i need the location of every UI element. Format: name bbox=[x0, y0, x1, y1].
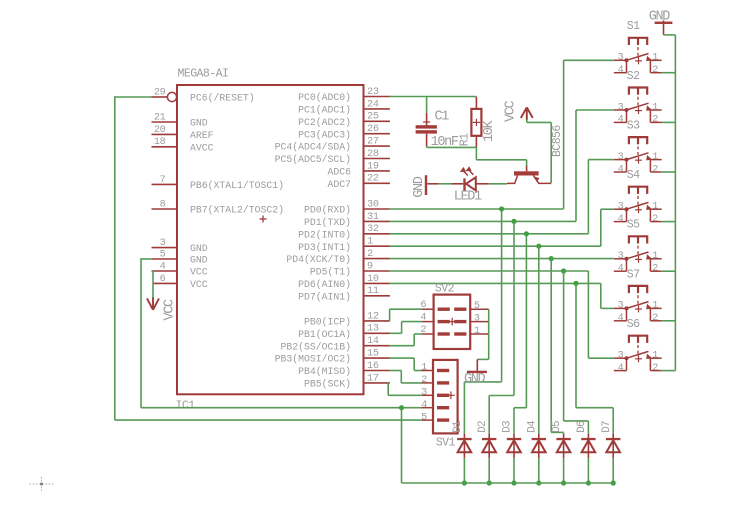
ground GND below SV2 bbox=[464, 359, 487, 387]
wire PB1 to SV2 pin4 bbox=[390, 322, 421, 334]
svg-text:8: 8 bbox=[160, 199, 166, 210]
IC1 pin 20 AREF bbox=[152, 125, 214, 141]
switch S3 bbox=[614, 120, 662, 176]
svg-text:PC4(ADC4/SDA): PC4(ADC4/SDA) bbox=[275, 142, 351, 153]
svg-text:12: 12 bbox=[367, 311, 379, 322]
SV2 pin 1 bbox=[454, 326, 489, 337]
svg-text:2: 2 bbox=[652, 164, 658, 175]
wire S1 pin2 to GND column bbox=[662, 72, 676, 74]
junction D3 rail bbox=[511, 480, 516, 485]
svg-text:ADC6: ADC6 bbox=[327, 167, 351, 178]
IC1 pin 27 PC4(ADC4/SDA) bbox=[275, 137, 390, 153]
wire D5 to rail bbox=[563, 458, 565, 483]
wire PD1 row bbox=[390, 220, 576, 222]
svg-text:4: 4 bbox=[618, 214, 624, 225]
wire PB2 to SV2 pin2 bbox=[390, 334, 421, 346]
IC1 pin 3 GND bbox=[152, 238, 208, 254]
junction D4 rail bbox=[536, 480, 541, 485]
svg-text:20: 20 bbox=[154, 125, 166, 136]
IC1 pin 9 PD5(T1) bbox=[310, 261, 390, 277]
svg-text:3: 3 bbox=[618, 251, 624, 262]
svg-text:2: 2 bbox=[652, 214, 658, 225]
svg-text:D5: D5 bbox=[551, 421, 563, 433]
junction D6 rail bbox=[586, 480, 591, 485]
svg-text:S4: S4 bbox=[627, 169, 640, 182]
svg-text:4: 4 bbox=[420, 312, 426, 323]
svg-text:R1: R1 bbox=[459, 133, 472, 146]
svg-text:1: 1 bbox=[652, 251, 658, 262]
SV2 pin 3 bbox=[454, 314, 489, 325]
svg-text:14: 14 bbox=[367, 336, 379, 347]
wire SV2 right pins to GND bbox=[477, 309, 488, 359]
svg-text:D4: D4 bbox=[526, 420, 538, 433]
SV2 pin 6 bbox=[420, 300, 449, 311]
svg-text:4: 4 bbox=[618, 313, 624, 324]
svg-text:VCC: VCC bbox=[190, 267, 208, 278]
svg-text:1: 1 bbox=[652, 301, 658, 312]
svg-text:4: 4 bbox=[160, 261, 166, 272]
svg-text:4: 4 bbox=[618, 264, 624, 275]
diode D1 bbox=[452, 420, 472, 458]
svg-text:PB6(XTAL1/TOSC1): PB6(XTAL1/TOSC1) bbox=[190, 180, 284, 191]
svg-text:PD0(RXD): PD0(RXD) bbox=[304, 205, 351, 216]
svg-text:6: 6 bbox=[160, 274, 166, 285]
svg-text:4: 4 bbox=[618, 363, 624, 374]
switch S6 bbox=[614, 318, 662, 374]
svg-text:S1: S1 bbox=[627, 20, 640, 33]
junction PD5 column bbox=[561, 268, 566, 273]
svg-text:S2: S2 bbox=[627, 70, 640, 83]
IC1 pin 19 ADC6 bbox=[327, 161, 389, 177]
wire S2 pin2 to GND column bbox=[662, 121, 676, 123]
resistor R1 10K bbox=[459, 97, 497, 148]
capacitor C1 bbox=[416, 110, 459, 151]
svg-text:1: 1 bbox=[421, 363, 427, 374]
svg-text:22: 22 bbox=[367, 174, 379, 185]
SV2 pin 2 bbox=[420, 325, 449, 336]
svg-text:25: 25 bbox=[367, 112, 379, 123]
IC1 pin 10 PD6(AIN0) bbox=[298, 274, 390, 290]
wire PD0 row bbox=[390, 208, 564, 210]
IC1 pin 23 PC0(ADC0) bbox=[298, 87, 390, 103]
svg-text:PB4(MISO): PB4(MISO) bbox=[298, 366, 351, 377]
IC1 pin 2 PD4(XCK/T0) bbox=[286, 249, 390, 265]
wire S7 pin2 to GND column bbox=[662, 320, 676, 322]
svg-text:1: 1 bbox=[652, 102, 658, 113]
PD2 column to D3 bbox=[514, 234, 526, 434]
svg-text:PD4(XCK/T0): PD4(XCK/T0) bbox=[286, 254, 351, 265]
wire PD3 to S4 pin3 bbox=[601, 209, 614, 246]
wire VCC net pin4 down to VCC arrow bbox=[152, 270, 154, 298]
wire PD5 row bbox=[390, 270, 589, 272]
wire PD5 to S6 pin3 bbox=[588, 271, 613, 358]
svg-text:D2: D2 bbox=[477, 421, 489, 433]
IC1 pin 8 PB7(XTAL2/TOSC2) bbox=[152, 199, 285, 215]
wire PB3 to SV1 pin1 bbox=[390, 358, 421, 370]
SV1 pin 5 bbox=[421, 412, 449, 423]
IC1 pin 28 PC5(ADC5/SCL) bbox=[275, 149, 390, 165]
svg-text:4: 4 bbox=[618, 164, 624, 175]
PD3 column to D4 bbox=[538, 246, 540, 434]
svg-text:S3: S3 bbox=[627, 120, 640, 133]
svg-text:9: 9 bbox=[367, 261, 373, 272]
SV2 pin 4 bbox=[420, 312, 449, 323]
wire D3 to rail bbox=[513, 458, 515, 483]
PD1 column to D2 bbox=[489, 221, 514, 433]
svg-text:2: 2 bbox=[652, 264, 658, 275]
wire R1/C1 bottom to Q1 base bbox=[476, 147, 526, 167]
svg-text:PB5(SCK): PB5(SCK) bbox=[304, 379, 351, 390]
IC1 pin 5 GND bbox=[152, 249, 208, 265]
svg-text:3: 3 bbox=[618, 351, 624, 362]
IC1 pin 13 PB1(OC1A) bbox=[298, 324, 390, 340]
svg-text:21: 21 bbox=[154, 112, 166, 123]
wire PD3 row bbox=[390, 245, 601, 247]
PD6 column to D7 bbox=[576, 283, 613, 433]
svg-text:27: 27 bbox=[367, 137, 379, 148]
svg-text:17: 17 bbox=[367, 373, 379, 384]
svg-text:SV2: SV2 bbox=[435, 283, 455, 296]
wire PB5 to SV1 pin3 bbox=[388, 383, 421, 395]
svg-text:ADC7: ADC7 bbox=[327, 179, 351, 190]
svg-text:15: 15 bbox=[367, 349, 379, 360]
svg-text:LED1: LED1 bbox=[454, 190, 482, 205]
svg-text:10: 10 bbox=[367, 274, 379, 285]
wire GND to LED1 bbox=[439, 183, 452, 185]
switch S2 bbox=[614, 70, 662, 126]
svg-text:31: 31 bbox=[367, 212, 379, 223]
svg-text:SV1: SV1 bbox=[436, 437, 456, 450]
svg-text:32: 32 bbox=[367, 224, 379, 235]
svg-text:D7: D7 bbox=[601, 421, 613, 433]
svg-text:24: 24 bbox=[367, 99, 379, 110]
svg-text:PC2(ADC2): PC2(ADC2) bbox=[298, 117, 351, 128]
svg-text:2: 2 bbox=[652, 313, 658, 324]
wire PC0 net to C1 and R1 bbox=[390, 97, 477, 114]
ground GND top right bbox=[649, 9, 673, 35]
svg-text:GND: GND bbox=[190, 255, 208, 266]
switch S7 bbox=[614, 268, 662, 324]
power symbol VCC above Q1 (up arrow) bbox=[503, 100, 532, 122]
svg-text:3: 3 bbox=[618, 202, 624, 213]
wire S5 pin2 to GND column bbox=[662, 270, 676, 272]
svg-text:VCC: VCC bbox=[503, 100, 518, 122]
svg-text:S6: S6 bbox=[627, 318, 640, 331]
svg-text:3: 3 bbox=[618, 152, 624, 163]
svg-text:D6: D6 bbox=[576, 421, 588, 433]
IC IC1 MEGA8-AI box bbox=[176, 68, 364, 413]
IC1 pin 14 PB2(SS/OC1B) bbox=[280, 336, 389, 352]
svg-text:19: 19 bbox=[367, 161, 379, 172]
SV1 pin 2 bbox=[421, 375, 449, 386]
IC1 pin 4 VCC bbox=[152, 261, 208, 277]
IC1 pin 17 PB5(SCK) bbox=[304, 373, 390, 389]
svg-text:PD2(INT0): PD2(INT0) bbox=[298, 229, 351, 240]
junction PD6 column bbox=[573, 281, 578, 286]
svg-text:AVCC: AVCC bbox=[190, 142, 214, 153]
junction at SV1 pin4 drop bbox=[399, 405, 404, 410]
IC1 pin 16 PB4(MISO) bbox=[298, 361, 390, 377]
svg-text:PC1(ADC1): PC1(ADC1) bbox=[298, 105, 351, 116]
svg-text:4: 4 bbox=[618, 115, 624, 126]
wire PD4 row bbox=[390, 258, 614, 260]
wire PC6 reset net to SV1 pin5 bbox=[115, 96, 421, 420]
IC1 pin 24 PC1(ADC1) bbox=[298, 99, 390, 115]
svg-text:MEGA8-AI: MEGA8-AI bbox=[178, 68, 229, 81]
junction D7 rail bbox=[611, 480, 616, 485]
IC1 pin 12 PB0(ICP) bbox=[304, 311, 390, 327]
diode D4 bbox=[526, 420, 546, 458]
svg-text:D3: D3 bbox=[502, 421, 514, 433]
wire S6 pin2 to GND column bbox=[662, 370, 676, 372]
svg-text:2: 2 bbox=[652, 115, 658, 126]
wire drop to diode rail bbox=[401, 408, 403, 483]
svg-text:PD1(TXD): PD1(TXD) bbox=[304, 217, 351, 228]
svg-text:2: 2 bbox=[652, 65, 658, 76]
wire LED1 to Q1 collector bbox=[489, 183, 507, 185]
svg-text:GND: GND bbox=[464, 372, 486, 387]
svg-text:GND: GND bbox=[649, 9, 671, 24]
IC1 pin 32 PD2(INT0) bbox=[298, 224, 390, 240]
svg-text:IC1: IC1 bbox=[176, 400, 196, 413]
svg-text:D1: D1 bbox=[452, 420, 464, 433]
ground GND left of LED1 bbox=[412, 175, 439, 198]
wire VCC to Q1 emitter bbox=[527, 120, 551, 184]
wire D7 to rail bbox=[612, 458, 614, 483]
SV1 pin 4 bbox=[421, 400, 449, 411]
svg-text:BC856: BC856 bbox=[551, 125, 564, 157]
svg-text:AREF: AREF bbox=[190, 130, 214, 141]
IC1 pin 29 PC6(/RESET) bbox=[152, 87, 255, 103]
IC1 pin 31 PD1(TXD) bbox=[304, 212, 390, 228]
svg-text:23: 23 bbox=[367, 87, 379, 98]
junction PD2 column bbox=[524, 231, 529, 236]
wire D1 to rail bbox=[463, 458, 465, 483]
wire PB4 to SV1 pin2 bbox=[390, 371, 421, 383]
svg-text:PC0(ADC0): PC0(ADC0) bbox=[298, 92, 351, 103]
IC1 pin 11 PD7(AIN1) bbox=[298, 286, 390, 302]
SV1 pin 1 bbox=[421, 363, 449, 374]
wire C1 bottom to R1 bottom bbox=[427, 146, 477, 147]
svg-text:GND: GND bbox=[412, 176, 427, 198]
wire D4 to rail bbox=[538, 458, 540, 483]
svg-text:PB3(MOSI/OC2): PB3(MOSI/OC2) bbox=[275, 354, 351, 365]
wire PD1 to S2 pin3 bbox=[576, 110, 614, 221]
svg-text:PD6(AIN0): PD6(AIN0) bbox=[298, 279, 351, 290]
svg-text:2: 2 bbox=[421, 375, 427, 386]
PD4 column to D5 bbox=[551, 259, 563, 434]
svg-text:GND: GND bbox=[190, 118, 208, 129]
wire S4 pin2 to GND column bbox=[662, 221, 676, 223]
LED LED1 bbox=[451, 166, 489, 204]
svg-text:1: 1 bbox=[652, 152, 658, 163]
svg-text:1: 1 bbox=[652, 53, 658, 64]
diode D7 bbox=[601, 421, 621, 458]
PD5 column to D6 bbox=[564, 271, 589, 434]
diode D3 bbox=[502, 421, 522, 458]
svg-text:PB0(ICP): PB0(ICP) bbox=[304, 317, 351, 328]
svg-text:1: 1 bbox=[367, 237, 373, 248]
svg-text:1: 1 bbox=[652, 351, 658, 362]
origin crosshair mark bbox=[30, 477, 54, 491]
svg-text:2: 2 bbox=[420, 325, 426, 336]
svg-text:PB7(XTAL2/TOSC2): PB7(XTAL2/TOSC2) bbox=[190, 205, 284, 216]
connector SV2 bbox=[434, 283, 471, 350]
svg-text:2: 2 bbox=[367, 249, 373, 260]
svg-text:16: 16 bbox=[367, 361, 379, 372]
svg-text:VCC: VCC bbox=[163, 299, 178, 321]
svg-text:30: 30 bbox=[367, 199, 379, 210]
svg-text:4: 4 bbox=[618, 65, 624, 76]
svg-text:3: 3 bbox=[618, 301, 624, 312]
svg-text:28: 28 bbox=[367, 149, 379, 160]
svg-text:5: 5 bbox=[421, 412, 427, 423]
wire PD6 row bbox=[390, 282, 601, 284]
IC1 pin 21 GND bbox=[152, 112, 208, 128]
power symbol VCC (down arrow) bbox=[147, 297, 178, 320]
svg-text:3: 3 bbox=[474, 314, 480, 325]
svg-text:PD5(T1): PD5(T1) bbox=[310, 267, 351, 278]
junction D5 rail bbox=[561, 480, 566, 485]
svg-text:3: 3 bbox=[618, 102, 624, 113]
svg-text:C1: C1 bbox=[435, 110, 450, 125]
junction D2 rail bbox=[487, 480, 492, 485]
transistor Q1 BC856 bbox=[507, 125, 564, 184]
svg-text:GND: GND bbox=[190, 243, 208, 254]
svg-text:3: 3 bbox=[160, 238, 166, 249]
svg-text:29: 29 bbox=[154, 87, 166, 98]
IC1 pin 18 AVCC bbox=[152, 137, 214, 153]
wire PB0 to SV2 pin6 bbox=[390, 309, 422, 321]
svg-text:PD7(AIN1): PD7(AIN1) bbox=[298, 291, 351, 302]
svg-text:S7: S7 bbox=[627, 268, 640, 281]
svg-text:3: 3 bbox=[618, 53, 624, 64]
diode D6 bbox=[576, 421, 596, 458]
IC1 pin 15 PB3(MOSI/OC2) bbox=[275, 349, 390, 365]
wire GND net pin5 to SV1 pin4 bbox=[141, 258, 421, 408]
wire S3 pin2 to GND column bbox=[662, 171, 676, 173]
IC1 pin 30 PD0(RXD) bbox=[304, 199, 390, 215]
svg-text:5: 5 bbox=[474, 301, 480, 312]
PD0 column to D1 bbox=[464, 209, 501, 434]
wire PD0 to S1 pin3 bbox=[564, 60, 614, 209]
svg-text:4: 4 bbox=[421, 400, 427, 411]
diode D5 bbox=[551, 421, 571, 458]
wire D2 to rail bbox=[488, 458, 490, 483]
svg-text:1: 1 bbox=[474, 326, 480, 337]
switch S5 bbox=[614, 219, 662, 275]
svg-text:PB2(SS/OC1B): PB2(SS/OC1B) bbox=[280, 341, 351, 352]
svg-text:VCC: VCC bbox=[190, 279, 208, 290]
junction PD0 column bbox=[499, 206, 504, 211]
svg-text:26: 26 bbox=[367, 124, 379, 135]
svg-text:1: 1 bbox=[652, 202, 658, 213]
svg-text:5: 5 bbox=[160, 249, 166, 260]
svg-text:10K: 10K bbox=[482, 119, 497, 142]
switch S1 bbox=[614, 20, 662, 76]
junction PD1 column bbox=[511, 219, 516, 224]
IC1 pin 26 PC3(ADC3) bbox=[298, 124, 390, 140]
IC1 pin 7 PB6(XTAL1/TOSC1) bbox=[152, 175, 285, 191]
svg-text:PD3(INT1): PD3(INT1) bbox=[298, 242, 351, 253]
junction PD3 column bbox=[536, 244, 541, 249]
switch S4 bbox=[614, 169, 662, 225]
wire GND to switch column bbox=[664, 35, 676, 371]
diode D2 bbox=[477, 421, 497, 458]
svg-text:13: 13 bbox=[367, 324, 379, 335]
SV1 pin 3 bbox=[421, 388, 449, 399]
svg-text:18: 18 bbox=[154, 137, 166, 148]
wire diode bottom rail bbox=[402, 482, 614, 484]
junction D1 rail bbox=[462, 480, 467, 485]
wire PD2 row bbox=[390, 233, 589, 235]
connector SV1 bbox=[433, 360, 458, 450]
svg-text:2: 2 bbox=[652, 363, 658, 374]
IC1 pin 22 ADC7 bbox=[327, 174, 389, 190]
svg-text:PC6(/RESET): PC6(/RESET) bbox=[190, 93, 255, 104]
IC1 pin 6 VCC bbox=[153, 274, 208, 290]
svg-text:3: 3 bbox=[421, 388, 427, 399]
svg-text:PC5(ADC5/SCL): PC5(ADC5/SCL) bbox=[275, 154, 351, 165]
SV2 pin 5 bbox=[454, 301, 489, 312]
svg-text:7: 7 bbox=[160, 175, 166, 186]
wire D6 to rail bbox=[587, 458, 589, 483]
svg-text:PC3(ADC3): PC3(ADC3) bbox=[298, 129, 351, 140]
svg-text:PB1(OC1A): PB1(OC1A) bbox=[298, 329, 351, 340]
wire PD6 to S7 pin3 bbox=[601, 283, 614, 308]
IC1 pin 25 PC2(ADC2) bbox=[298, 112, 390, 128]
svg-text:6: 6 bbox=[420, 300, 426, 311]
IC1 pin 1 PD3(INT1) bbox=[298, 237, 390, 253]
wire PD2 to S3 pin3 bbox=[588, 160, 613, 234]
svg-text:11: 11 bbox=[367, 286, 379, 297]
svg-text:S5: S5 bbox=[627, 219, 640, 232]
junction PD4 column bbox=[549, 256, 554, 261]
